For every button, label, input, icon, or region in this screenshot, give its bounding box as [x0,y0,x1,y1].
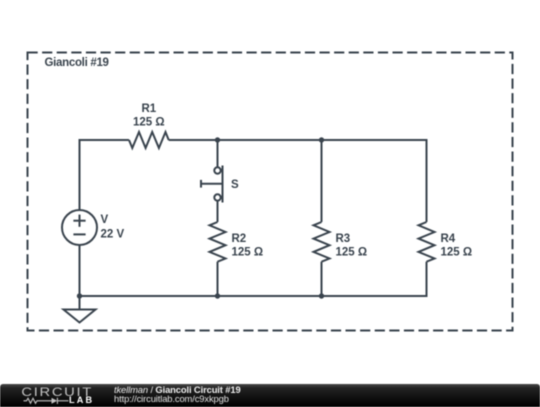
svg-text:LAB: LAB [69,395,94,405]
wire: switch node to R3 node [218,139,322,141]
svg-text:Giancoli #19: Giancoli #19 [45,57,109,69]
junction: bottom rail / R2 [215,293,220,298]
junction: bottom rail / ground [77,293,82,298]
junction: top rail / switch branch [215,137,220,142]
wire: V+ to top-left corner [79,139,81,210]
wire: bottom rail right segment [322,295,428,297]
resistor R1 [129,103,169,148]
voltage source V 22 V [62,210,124,245]
svg-text:125 Ω: 125 Ω [133,117,165,129]
svg-text:R2: R2 [232,233,247,245]
wire: bottom rail middle segment [218,295,322,297]
junction: top rail / R3 branch [319,137,324,142]
svg-text:V: V [101,214,109,226]
wire: top rail left to R1 [79,139,130,141]
wire: switch S to R2 [217,202,219,223]
wire: R3 node to top-right corner [322,139,427,141]
svg-text:125 Ω: 125 Ω [232,247,264,259]
switch S (pushbutton, normally open) [201,166,239,203]
credit text [114,384,241,403]
svg-text:22 V: 22 V [101,229,125,241]
svg-text:R3: R3 [336,233,351,245]
footer bar [0,384,540,407]
wire: R1 to switch node [169,139,218,141]
CircuitLab logo [0,384,110,405]
wire: R2 to bottom rail [217,262,219,296]
svg-text:R4: R4 [441,233,456,245]
svg-text:125 Ω: 125 Ω [336,247,368,259]
resistor R3 [314,222,368,262]
wire: R3 to bottom rail [321,262,323,296]
wire: top rail into switch S [217,140,219,167]
resistor R4 [419,222,473,262]
svg-text:R1: R1 [141,103,156,115]
wire: R4 branch from top-right corner [426,139,428,222]
wire: R4 to bottom-right corner [426,262,428,297]
ground [64,296,96,323]
svg-text:S: S [231,179,239,191]
junction: bottom rail / R3 [319,293,324,298]
wire: R3 branch from top rail [321,140,323,222]
wire: V- to bottom rail [79,245,81,296]
resistor R2 [210,222,264,262]
svg-text:125 Ω: 125 Ω [441,247,473,259]
wire: bottom rail left segment [80,295,218,297]
annotation box Giancoli #19 [28,53,513,331]
